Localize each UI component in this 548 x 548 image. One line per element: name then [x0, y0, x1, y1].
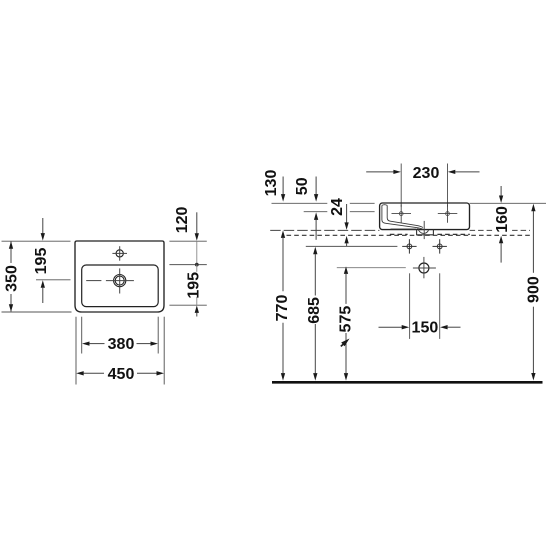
- fixing hole left: [402, 239, 416, 253]
- svg-text:900: 900: [526, 276, 543, 303]
- dimension 350: [10, 242, 12, 312]
- extension line drain level (left): [337, 267, 406, 269]
- drain outlet rectangle (front view): [417, 230, 434, 235]
- extension line drain center (left): [36, 279, 71, 281]
- dimension 770: [281, 230, 285, 238]
- svg-text:195: 195: [185, 272, 202, 299]
- floor line: [272, 381, 543, 384]
- extension lines 150 dim: [409, 273, 411, 339]
- basin body (front view): [380, 203, 470, 230]
- extension line basin top (left): [2, 240, 71, 242]
- dimension 195 (left): [42, 218, 44, 234]
- extension line basin bottom (left): [2, 311, 72, 313]
- dimension 150: [379, 326, 403, 328]
- dimension 130: [282, 177, 284, 195]
- extension line bowl bottom (right side): [169, 304, 206, 306]
- dimension 380: [82, 341, 90, 345]
- svg-text:685: 685: [306, 297, 323, 324]
- dimension 230: [366, 171, 394, 173]
- svg-text:120: 120: [174, 206, 191, 233]
- fixing hole right: [433, 239, 447, 253]
- svg-text:24: 24: [329, 198, 346, 216]
- extension line basin top (right side): [169, 240, 206, 242]
- faucet hole T1 (top view): [112, 246, 127, 261]
- extension line rim level (left of basin): [272, 202, 375, 204]
- drain pipe circle (front view): [419, 263, 429, 273]
- extension line fixing holes level: [306, 245, 398, 247]
- svg-text:50: 50: [294, 177, 311, 195]
- dimension 195 (right): [196, 265, 198, 272]
- extension lines tap holes (above basin): [400, 164, 402, 207]
- svg-text:450: 450: [108, 366, 135, 383]
- oblique reference arrow at 575: [341, 342, 346, 346]
- dimension 685: [313, 247, 317, 255]
- fixing/mounting dashed line: [287, 234, 532, 236]
- extension line bowl top (right side): [169, 264, 206, 266]
- svg-text:230: 230: [413, 165, 440, 182]
- svg-text:195: 195: [33, 248, 50, 275]
- basin outer rim (top view): [75, 241, 164, 312]
- extension line tap level (left of basin): [304, 211, 375, 213]
- tap hole cross right (front view): [438, 205, 458, 223]
- dimension 120: [196, 212, 198, 233]
- svg-text:575: 575: [337, 306, 354, 333]
- dimension 900: [531, 204, 535, 212]
- svg-text:380: 380: [108, 336, 135, 353]
- dimension 24: [346, 204, 348, 223]
- bowl interior profile (section): [382, 205, 429, 234]
- dimension 160: [493, 205, 510, 233]
- extension line rim level (right of basin): [470, 202, 546, 204]
- svg-text:150: 150: [412, 320, 439, 337]
- svg-text:130: 130: [263, 170, 280, 197]
- hidden line basin underside (long dash): [270, 229, 379, 231]
- dimension 50: [315, 177, 317, 195]
- svg-text:160: 160: [494, 206, 511, 233]
- svg-text:770: 770: [274, 295, 291, 322]
- drain hole (top view): [86, 268, 134, 293]
- bowl inner outline (top view): [82, 265, 159, 307]
- dimension 575: [344, 266, 348, 274]
- extension lines below basin (top view): [76, 317, 164, 385]
- tap hole cross left (front view): [392, 205, 412, 223]
- dimension 450: [76, 371, 84, 375]
- svg-text:350: 350: [3, 265, 20, 292]
